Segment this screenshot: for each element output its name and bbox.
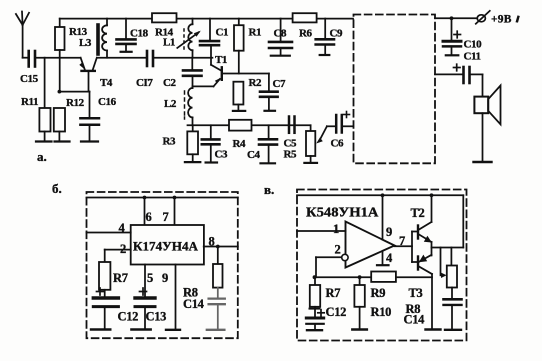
svg-text:C16: C16 (98, 96, 117, 108)
pin 5 (144, 265, 146, 297)
svg-text:R7: R7 (326, 286, 341, 300)
capacitor C12 (v) (306, 307, 323, 330)
svg-text:R10: R10 (371, 305, 392, 319)
capacitor C14 (v) (444, 288, 462, 330)
svg-text:C2: C2 (163, 77, 177, 89)
wire C17 to C2/L1 node (154, 57, 212, 59)
svg-text:+9В: +9В (491, 13, 512, 25)
svg-text:C15: C15 (20, 73, 39, 85)
svg-text:Т2: Т2 (411, 206, 425, 220)
node base divider (58, 90, 62, 94)
svg-text:2: 2 (120, 242, 126, 256)
resistor R14 (152, 13, 177, 22)
capacitors C10 C11 (443, 18, 461, 55)
capacitor C4 (259, 125, 277, 163)
speaker (474, 74, 501, 162)
svg-text:2: 2 (335, 243, 341, 257)
inductor L1 adjustable (177, 19, 201, 58)
svg-text:C6: C6 (331, 138, 345, 150)
pin 1 wire (297, 230, 346, 232)
capacitor C8 (269, 19, 292, 56)
svg-text:C12: C12 (326, 305, 347, 319)
antenna WA1 (16, 12, 29, 58)
trimmer R5 (304, 125, 327, 163)
op-amp U1 K174UN4A (131, 225, 204, 265)
inductor L2 adjustable core (185, 88, 193, 125)
svg-text:R1: R1 (249, 27, 262, 39)
resistor R6 (293, 13, 317, 22)
base rail T2 T3 (412, 232, 417, 263)
dashed module box v (297, 190, 467, 341)
feedback wire and R9 (313, 272, 432, 282)
transistor T4 (79, 58, 97, 92)
resistor R8 (v) (447, 248, 457, 288)
resistor R7 (99, 250, 110, 290)
svg-text:R5: R5 (284, 149, 298, 161)
svg-text:1: 1 (333, 222, 339, 236)
transistor T1 (211, 65, 269, 87)
output wire v (432, 247, 464, 249)
capacitor C7 (260, 74, 278, 111)
wire base node (59, 91, 89, 93)
svg-text:C3: C3 (215, 149, 229, 161)
svg-text:9: 9 (162, 271, 168, 285)
capacitor C16 (80, 92, 99, 142)
wire T1 emitter node (193, 85, 214, 87)
top rail (60, 18, 353, 20)
capacitor C6 electrolytic (327, 115, 353, 133)
capacitor C5 (289, 117, 295, 133)
capacitor C3 (202, 125, 220, 162)
resistor R11 (36, 58, 52, 142)
svg-text:8: 8 (209, 235, 215, 249)
capacitor C18 (117, 19, 136, 52)
pin 9 (166, 265, 180, 330)
capacitor C12 (91, 290, 118, 330)
top rail v (297, 194, 463, 196)
svg-text:C14: C14 (404, 313, 426, 327)
svg-text:К174УН4А: К174УН4А (133, 239, 199, 254)
svg-text:7: 7 (399, 234, 405, 248)
pin 4 wire (87, 232, 131, 234)
wiper to R8 (441, 248, 447, 279)
svg-text:CI7: CI7 (136, 77, 153, 89)
switch tick (516, 15, 520, 22)
capacitor C13 (131, 298, 155, 330)
resistor R10 (352, 277, 367, 329)
svg-text:в.: в. (264, 182, 274, 197)
svg-text:C11: C11 (464, 51, 481, 63)
pin 4 ground (377, 252, 389, 266)
pin 2 wire (105, 249, 131, 251)
capacitor C1 (200, 19, 219, 65)
svg-text:L3: L3 (79, 37, 92, 49)
svg-text:C9: C9 (330, 28, 344, 40)
rail corner down (462, 195, 464, 247)
+9V supply wire (435, 17, 477, 19)
transistor T2 (418, 195, 432, 242)
resistor R3 (185, 125, 200, 162)
resistor R4 (229, 120, 252, 131)
transistor T3 (418, 255, 441, 330)
pin 6 (144, 198, 146, 226)
resistor R7 (v) (310, 277, 320, 307)
resistor R2 (233, 82, 245, 111)
capacitor C2 (183, 58, 202, 88)
svg-text:C12: C12 (118, 310, 139, 324)
output capacitor (435, 67, 483, 83)
resistor R13 (55, 19, 65, 92)
svg-text:R9: R9 (371, 286, 386, 300)
emitter junction line (431, 242, 433, 256)
svg-text:C14: C14 (183, 297, 205, 311)
svg-text:T1: T1 (215, 54, 227, 66)
pin 9 lead (382, 195, 384, 239)
top rail b (87, 197, 238, 199)
dashed module box a (354, 15, 436, 164)
capacitor C9 (316, 19, 334, 55)
svg-text:R12: R12 (66, 97, 85, 109)
resistor R8 (213, 247, 223, 288)
svg-text:9: 9 (386, 225, 392, 239)
capacitor C15 (29, 51, 35, 67)
svg-text:б.: б. (52, 181, 62, 196)
dashed module box b (87, 192, 238, 338)
svg-text:C13: C13 (146, 310, 167, 324)
pin 8 wire (204, 246, 238, 248)
connector +9V (476, 11, 490, 24)
svg-text:4: 4 (386, 251, 393, 265)
svg-text:T4: T4 (100, 77, 113, 89)
svg-text:Т3: Т3 (409, 286, 423, 300)
wire C15 to T4 emitter (36, 57, 80, 59)
svg-text:К548УН1А: К548УН1А (306, 206, 379, 221)
svg-text:C10: C10 (464, 39, 483, 51)
svg-text:5: 5 (147, 271, 153, 285)
svg-text:R2: R2 (249, 77, 263, 89)
resistor R12 (54, 108, 70, 142)
pin 2 wire with bubble (316, 254, 348, 277)
bottom wire (188, 124, 311, 126)
svg-text:L2: L2 (164, 98, 177, 110)
svg-text:R6: R6 (299, 28, 313, 40)
svg-text:C4: C4 (247, 149, 261, 161)
svg-text:а.: а. (37, 149, 47, 164)
svg-text:6: 6 (146, 210, 152, 224)
wire antenna to C15 (23, 57, 28, 59)
capacitor C14 (207, 288, 225, 330)
inductor L3 with ferrite rod (98, 19, 107, 58)
svg-text:C8: C8 (274, 28, 288, 40)
svg-text:R7: R7 (113, 271, 128, 285)
svg-text:C7: C7 (273, 78, 287, 90)
svg-text:R4: R4 (233, 138, 247, 150)
svg-text:L1: L1 (163, 37, 175, 49)
svg-text:C1: C1 (216, 27, 229, 39)
svg-text:4: 4 (119, 221, 126, 235)
pin 7 output wire (395, 245, 413, 247)
svg-text:7: 7 (163, 210, 169, 224)
svg-text:R11: R11 (21, 96, 38, 108)
svg-text:C18: C18 (130, 28, 149, 40)
wire T4 collector to C17 (97, 57, 146, 59)
svg-text:R3: R3 (163, 136, 177, 148)
capacitor C17 (147, 51, 153, 66)
pin 7 (174, 198, 176, 226)
resistor R1 (234, 19, 244, 74)
